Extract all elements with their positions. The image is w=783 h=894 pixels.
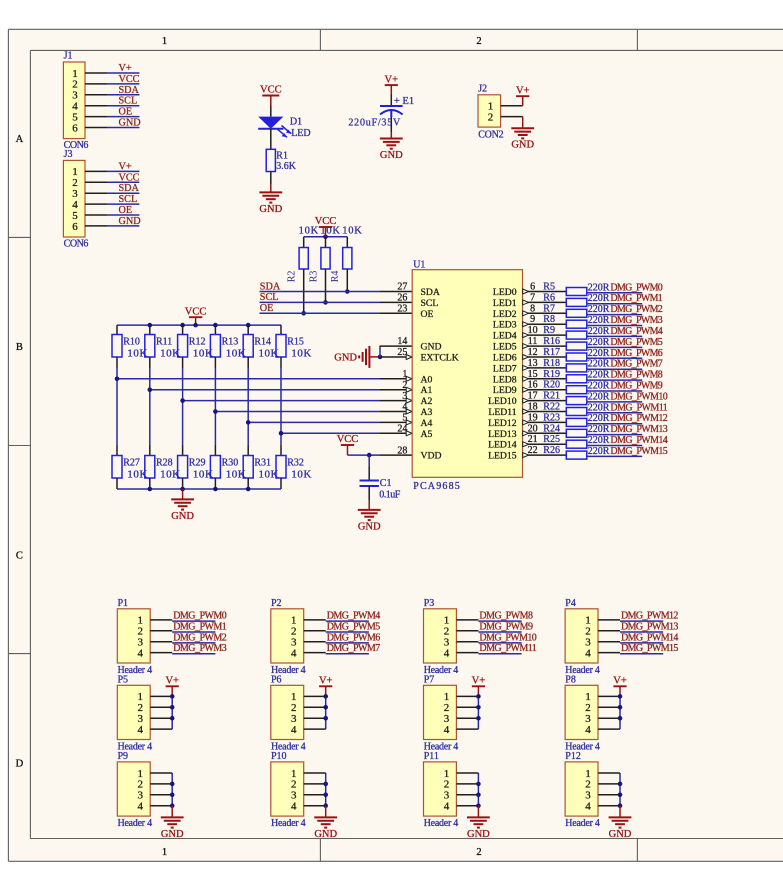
svg-text:220R: 220R xyxy=(588,391,610,402)
svg-text:U1: U1 xyxy=(413,259,425,270)
P8 pin 4 wire xyxy=(598,728,620,730)
wire net DMG_PWM11 xyxy=(587,412,642,414)
svg-text:LED3: LED3 xyxy=(493,320,517,331)
junction bottom bus xyxy=(180,487,185,492)
svg-text:VCC: VCC xyxy=(315,216,337,227)
wire array top bus xyxy=(117,324,281,326)
wire J2 pin1 to V+ xyxy=(522,96,524,106)
wire net DMG_PWM9 xyxy=(478,631,521,633)
svg-text:PCA9685: PCA9685 xyxy=(413,481,460,492)
wire R1 to GND xyxy=(270,172,272,193)
svg-text:220R: 220R xyxy=(588,293,610,304)
resistor R12 xyxy=(178,325,188,368)
svg-text:DMG_PWM9: DMG_PWM9 xyxy=(479,621,533,632)
svg-text:DMG_PWM0: DMG_PWM0 xyxy=(173,611,227,622)
wire net DMG_PWM5 xyxy=(326,631,369,633)
IC U1 PCA9685 body xyxy=(412,270,522,478)
connector P9 body xyxy=(117,762,150,816)
svg-text:CON2: CON2 xyxy=(478,129,503,140)
svg-text:DMG_PWM15: DMG_PWM15 xyxy=(621,643,678,654)
svg-text:3.6K: 3.6K xyxy=(276,161,297,172)
P8 pin 3 xyxy=(585,713,591,725)
svg-text:6: 6 xyxy=(72,221,78,233)
svg-text:DMG_PWM11: DMG_PWM11 xyxy=(610,402,667,413)
junction on top bus xyxy=(323,235,328,240)
wire column R12 to R29 xyxy=(182,368,184,445)
P10 pin 4 wire xyxy=(304,805,326,807)
svg-text:GND: GND xyxy=(161,829,184,840)
svg-text:V+: V+ xyxy=(119,161,132,172)
P10 pin 2 wire xyxy=(304,783,326,785)
J1 pin 3 xyxy=(72,90,107,102)
P10 pin 3 wire xyxy=(304,794,326,796)
resistor R2 xyxy=(299,237,308,313)
svg-text:GND: GND xyxy=(421,342,442,353)
wire net VCC at J1 pin 2 xyxy=(107,83,139,85)
P11 pin 4 xyxy=(444,801,450,813)
svg-text:5: 5 xyxy=(402,413,407,424)
ground GND (P9) xyxy=(161,817,184,839)
chip pin 13 wire xyxy=(523,365,567,370)
P12 pin 2 wire xyxy=(598,783,620,785)
svg-text:GND: GND xyxy=(609,829,632,840)
resistor R28 xyxy=(145,445,155,489)
svg-text:DMG_PWM13: DMG_PWM13 xyxy=(621,621,678,632)
resistor R20 xyxy=(566,386,587,394)
wire P9 to GND xyxy=(171,806,173,818)
zone labels xyxy=(16,36,482,858)
wire net A3 xyxy=(215,409,412,414)
P4 pin 2 xyxy=(585,626,591,638)
P1 pin 1 xyxy=(138,615,144,627)
svg-text:C1: C1 xyxy=(380,478,392,489)
junction bottom bus xyxy=(246,487,251,492)
P1 pin 3 xyxy=(138,637,144,649)
wire P5 vertical bus xyxy=(171,696,173,729)
svg-text:15: 15 xyxy=(528,369,538,380)
connector P12 body xyxy=(565,762,598,816)
wire net DMG_PWM15 xyxy=(587,455,642,457)
wire P7 vertical bus xyxy=(477,696,479,729)
wire column R10 to R27 xyxy=(116,368,118,445)
svg-text:22: 22 xyxy=(528,445,538,456)
P11 pin 3 wire xyxy=(456,794,478,796)
junction P10 pin 4 xyxy=(323,803,328,808)
junction P9 pin 3 xyxy=(170,793,175,798)
svg-text:SCL: SCL xyxy=(421,298,439,309)
P6 pin 2 xyxy=(291,702,297,714)
chip pin 9 wire xyxy=(523,322,567,327)
junction P10 pin 2 xyxy=(323,782,328,787)
svg-text:DMG_PWM1: DMG_PWM1 xyxy=(610,293,662,304)
svg-text:GND: GND xyxy=(358,521,381,532)
P10 pin 1 xyxy=(291,768,297,780)
J3 pin 1 xyxy=(72,166,107,178)
svg-text:26: 26 xyxy=(397,293,407,304)
wire net DMG_PWM9 xyxy=(587,390,642,392)
wire column R13 to R30 xyxy=(214,368,216,445)
wire P9 vertical bus xyxy=(171,773,173,806)
svg-text:DMG_PWM7: DMG_PWM7 xyxy=(610,359,662,370)
P8 pin 1 wire xyxy=(598,695,620,697)
P2 pin 4 wire xyxy=(304,652,326,654)
wire net DMG_PWM6 xyxy=(587,357,642,359)
junction P11 pin 2 xyxy=(476,782,481,787)
wire net SDA at J3 pin 3 xyxy=(107,192,139,194)
P10 pin 4 xyxy=(291,801,297,813)
junction R2 to bus xyxy=(301,311,306,316)
connector P10 body xyxy=(271,762,304,816)
wire net DMG_PWM4 xyxy=(326,620,369,622)
svg-text:P1: P1 xyxy=(118,598,129,609)
P4 pin 1 wire xyxy=(598,619,620,621)
svg-text:DMG_PWM3: DMG_PWM3 xyxy=(173,643,227,654)
P6 pin 4 wire xyxy=(304,728,326,730)
svg-text:21: 21 xyxy=(528,434,538,445)
svg-text:P7: P7 xyxy=(424,674,435,685)
svg-text:P9: P9 xyxy=(118,751,129,762)
P2 pin 3 xyxy=(291,637,297,649)
wire J2 pin2 to GND xyxy=(522,117,524,129)
wire VCC to D1 anode xyxy=(270,106,272,117)
svg-text:P11: P11 xyxy=(424,751,439,762)
svg-text:V+: V+ xyxy=(385,74,399,85)
wire P12 to GND xyxy=(619,806,621,818)
chip pin 8 wire xyxy=(523,311,567,316)
resistor R21 xyxy=(566,397,587,405)
P10 pin 3 xyxy=(291,790,297,802)
wire GND net vertical xyxy=(379,346,381,357)
wire net DMG_PWM13 xyxy=(587,434,642,436)
svg-text:220R: 220R xyxy=(588,435,610,446)
wire net VCC at J3 pin 2 xyxy=(107,181,139,183)
ground GND (resistor array) xyxy=(171,499,194,521)
connector P6 body xyxy=(271,685,304,739)
resistor R24 xyxy=(566,429,587,437)
svg-text:DMG_PWM14: DMG_PWM14 xyxy=(621,632,678,643)
ground GND (P10) xyxy=(314,817,337,839)
wire column R14 to R31 xyxy=(247,368,249,445)
chip pin 22 wire xyxy=(523,453,567,458)
connector J3 body xyxy=(63,160,85,237)
P6 pin 1 wire xyxy=(304,695,326,697)
P5 pin 4 xyxy=(138,724,144,736)
resistor R9 xyxy=(566,331,587,339)
svg-text:DMG_PWM0: DMG_PWM0 xyxy=(610,282,662,293)
svg-text:P6: P6 xyxy=(271,674,282,685)
resistor R1 xyxy=(266,149,275,171)
svg-text:VCC: VCC xyxy=(119,172,140,183)
wire column R15 to R32 xyxy=(280,368,282,445)
junction R3 to bus xyxy=(323,300,328,305)
junction P12 pin 4 xyxy=(618,803,623,808)
svg-text:J2: J2 xyxy=(478,83,487,94)
wire net DMG_PWM0 xyxy=(587,292,642,294)
svg-text:4: 4 xyxy=(291,801,297,813)
svg-text:R19: R19 xyxy=(543,369,560,380)
connector P8 body xyxy=(565,685,598,739)
svg-text:220R: 220R xyxy=(588,315,610,326)
svg-text:220uF/35V: 220uF/35V xyxy=(348,117,401,128)
P5 pin 4 wire xyxy=(150,728,172,730)
junction P5 pin 3 xyxy=(170,716,175,721)
svg-text:+ E1: + E1 xyxy=(394,96,414,107)
junction top bus xyxy=(148,323,153,328)
svg-text:D1: D1 xyxy=(290,116,302,127)
P4 pin 4 wire xyxy=(598,652,620,654)
svg-text:GND: GND xyxy=(314,829,337,840)
wire net DMG_PWM5 xyxy=(587,346,642,348)
svg-text:V+: V+ xyxy=(472,676,486,687)
svg-text:10K: 10K xyxy=(342,226,362,237)
wire net A2 xyxy=(183,398,413,403)
junction P12 pin 3 xyxy=(618,793,623,798)
junction P7 pin 2 xyxy=(476,705,481,710)
svg-text:4: 4 xyxy=(138,647,144,659)
P9 pin 3 wire xyxy=(150,794,172,796)
chip pin 12 wire xyxy=(523,355,567,360)
P9 pin 1 xyxy=(138,768,144,780)
P7 pin 4 xyxy=(444,724,450,736)
svg-text:OE: OE xyxy=(421,309,434,320)
svg-text:CON6: CON6 xyxy=(64,239,89,250)
svg-text:EXTCLK: EXTCLK xyxy=(421,353,459,364)
svg-text:10: 10 xyxy=(528,325,538,336)
P8 pin 2 wire xyxy=(598,706,620,708)
wire P11 vertical bus xyxy=(477,773,479,806)
power port VCC (pull-ups) xyxy=(315,216,337,237)
J2 pin 1 xyxy=(488,101,523,113)
wire net DMG_PWM3 xyxy=(587,325,642,327)
svg-text:R29: R29 xyxy=(189,457,206,468)
svg-text:4: 4 xyxy=(585,647,591,659)
svg-text:LED4: LED4 xyxy=(493,331,517,342)
ground GND (D1) xyxy=(259,192,282,214)
svg-text:SCL: SCL xyxy=(260,292,279,303)
P2 pin 1 wire xyxy=(304,619,326,621)
P9 pin 2 xyxy=(138,779,144,791)
wire net DMG_PWM2 xyxy=(172,642,215,644)
resistor R26 xyxy=(566,451,587,459)
svg-text:220R: 220R xyxy=(588,402,610,413)
svg-text:4: 4 xyxy=(444,647,450,659)
P7 pin 3 wire xyxy=(456,717,478,719)
svg-text:Header 4: Header 4 xyxy=(565,818,600,829)
P5 pin 2 xyxy=(138,702,144,714)
junction top bus xyxy=(246,323,251,328)
junction A0 xyxy=(115,377,120,382)
P1 pin 2 wire xyxy=(150,630,172,632)
junction A2 xyxy=(180,398,185,403)
wire P6 vertical bus xyxy=(325,696,327,729)
svg-text:10K: 10K xyxy=(291,469,311,481)
P6 pin 3 xyxy=(291,713,297,725)
P11 pin 3 xyxy=(444,790,450,802)
resistor R14 xyxy=(243,325,253,368)
junction bottom bus xyxy=(148,487,153,492)
svg-text:R24: R24 xyxy=(543,423,560,434)
capacitor E1 polarized xyxy=(380,106,403,115)
svg-text:LED0: LED0 xyxy=(493,287,517,298)
svg-text:R4: R4 xyxy=(330,271,341,283)
wire D1 cathode to R1 xyxy=(270,129,272,150)
wire column R11 to R28 xyxy=(149,368,151,445)
connector J2 body xyxy=(478,95,501,127)
power port V+ (P8) xyxy=(613,676,627,697)
power port V+ (P7) xyxy=(472,676,486,697)
P10 pin 2 xyxy=(291,779,297,791)
P11 pin 1 wire xyxy=(456,772,478,774)
resistor R10 xyxy=(112,325,122,368)
junction A3 xyxy=(213,409,218,414)
svg-text:7: 7 xyxy=(530,292,535,303)
P12 pin 2 xyxy=(585,779,591,791)
svg-text:220R: 220R xyxy=(588,304,610,315)
svg-text:DMG_PWM14: DMG_PWM14 xyxy=(610,435,667,446)
P7 pin 3 xyxy=(444,713,450,725)
svg-text:GND: GND xyxy=(119,118,141,129)
junction A4 xyxy=(246,420,251,425)
svg-text:DMG_PWM7: DMG_PWM7 xyxy=(327,643,381,654)
chip pin 6 wire xyxy=(523,289,567,294)
wire net A0 xyxy=(117,376,412,381)
svg-text:LED2: LED2 xyxy=(493,309,517,320)
wire P11 to GND xyxy=(477,806,479,818)
power port V+ (P6) xyxy=(319,676,333,697)
resistor R32 xyxy=(276,445,286,489)
svg-text:LED15: LED15 xyxy=(488,451,517,462)
wire net SCL at J1 pin 4 xyxy=(107,105,139,107)
connector J1 body xyxy=(63,62,85,139)
resistor R22 xyxy=(566,408,587,416)
ground GND (P12) xyxy=(609,817,632,839)
svg-text:220R: 220R xyxy=(588,337,610,348)
junction P11 pin 4 xyxy=(476,803,481,808)
svg-text:GND: GND xyxy=(259,204,282,215)
wire net DMG_PWM11 xyxy=(478,653,521,655)
P2 pin 2 wire xyxy=(304,630,326,632)
svg-text:VCC: VCC xyxy=(337,434,359,445)
svg-text:P12: P12 xyxy=(565,751,581,762)
svg-text:1: 1 xyxy=(162,36,167,47)
svg-text:R13: R13 xyxy=(222,336,239,347)
svg-text:VCC: VCC xyxy=(119,74,140,85)
ground GND (P11) xyxy=(467,817,490,839)
svg-text:220R: 220R xyxy=(588,326,610,337)
wire net SCL at J3 pin 4 xyxy=(107,203,139,205)
chip pin 25 wire xyxy=(380,347,412,359)
junction P6 pin 1 xyxy=(323,694,328,699)
svg-text:DMG_PWM1: DMG_PWM1 xyxy=(173,621,227,632)
junction P8 pin 2 xyxy=(618,705,623,710)
svg-text:DMG_PWM12: DMG_PWM12 xyxy=(610,413,667,424)
svg-text:13: 13 xyxy=(528,358,538,369)
wire pull-up top bus xyxy=(304,236,348,238)
svg-text:B: B xyxy=(16,342,23,353)
wire net DMG_PWM10 xyxy=(587,401,642,403)
svg-text:20: 20 xyxy=(528,423,538,434)
svg-text:OE: OE xyxy=(119,107,133,118)
svg-text:A3: A3 xyxy=(421,407,433,418)
wire net DMG_PWM8 xyxy=(587,379,642,381)
wire net OE at J3 pin 5 xyxy=(107,214,139,216)
wire net DMG_PWM10 xyxy=(478,642,521,644)
wire P12 vertical bus xyxy=(619,773,621,806)
junction P5 pin 1 xyxy=(170,694,175,699)
power port VCC (D1) xyxy=(260,85,282,106)
svg-text:220R: 220R xyxy=(588,446,610,457)
P4 pin 3 wire xyxy=(598,641,620,643)
chip pin 16 wire xyxy=(523,387,567,392)
svg-text:C: C xyxy=(16,550,23,561)
svg-text:J3: J3 xyxy=(64,149,73,160)
junction P10 pin 3 xyxy=(323,793,328,798)
svg-text:14: 14 xyxy=(397,336,407,347)
svg-text:LED1: LED1 xyxy=(493,298,517,309)
wire E1 to GND xyxy=(390,110,392,139)
wire net DMG_PWM14 xyxy=(587,445,642,447)
resistor R30 xyxy=(210,445,220,489)
wire net DMG_PWM3 xyxy=(172,653,215,655)
P2 pin 3 wire xyxy=(304,641,326,643)
junction P9 pin 2 xyxy=(170,782,175,787)
svg-text:1: 1 xyxy=(402,369,407,380)
svg-text:9: 9 xyxy=(530,314,535,325)
wire bottom bus to GND xyxy=(182,489,184,499)
wire C1 to GND xyxy=(368,486,370,510)
wire net DMG_PWM12 xyxy=(587,423,642,425)
P4 pin 4 xyxy=(585,647,591,659)
wire net OE xyxy=(260,312,413,314)
J3 pin 6 xyxy=(72,221,107,233)
resistor R27 xyxy=(112,445,122,489)
resistor R18 xyxy=(566,364,587,372)
wire net GND at J3 pin 6 xyxy=(107,225,139,227)
junction bottom bus xyxy=(213,487,218,492)
svg-text:LED13: LED13 xyxy=(488,429,517,440)
wire net SCL xyxy=(260,301,413,303)
J3 pin 2 xyxy=(72,177,107,189)
svg-text:GND: GND xyxy=(467,829,490,840)
chip pin 18 wire xyxy=(523,409,567,414)
svg-text:J1: J1 xyxy=(64,51,73,62)
resistor R11 xyxy=(145,325,155,368)
junction P7 pin 3 xyxy=(476,716,481,721)
svg-text:P4: P4 xyxy=(565,598,576,609)
svg-text:DMG_PWM13: DMG_PWM13 xyxy=(610,424,667,435)
svg-text:R16: R16 xyxy=(543,336,560,347)
svg-text:2: 2 xyxy=(476,36,481,47)
svg-text:A: A xyxy=(16,134,24,145)
P9 pin 4 wire xyxy=(150,805,172,807)
J1 pin 4 xyxy=(72,101,107,113)
wire net GND at J1 pin 6 xyxy=(107,127,139,129)
svg-text:R18: R18 xyxy=(543,358,560,369)
resistor R3 xyxy=(321,237,330,303)
chip pin 10 wire xyxy=(523,333,567,338)
svg-text:R22: R22 xyxy=(543,402,560,413)
svg-text:LED6: LED6 xyxy=(493,353,517,364)
resistor R7 xyxy=(566,309,587,317)
svg-text:4: 4 xyxy=(402,402,407,413)
junction P8 pin 3 xyxy=(618,716,623,721)
P11 pin 2 xyxy=(444,779,450,791)
P5 pin 3 wire xyxy=(150,717,172,719)
resistor R13 xyxy=(210,325,220,368)
wire net A4 xyxy=(248,420,412,425)
P1 pin 3 wire xyxy=(150,641,172,643)
svg-text:DMG_PWM6: DMG_PWM6 xyxy=(610,348,662,359)
